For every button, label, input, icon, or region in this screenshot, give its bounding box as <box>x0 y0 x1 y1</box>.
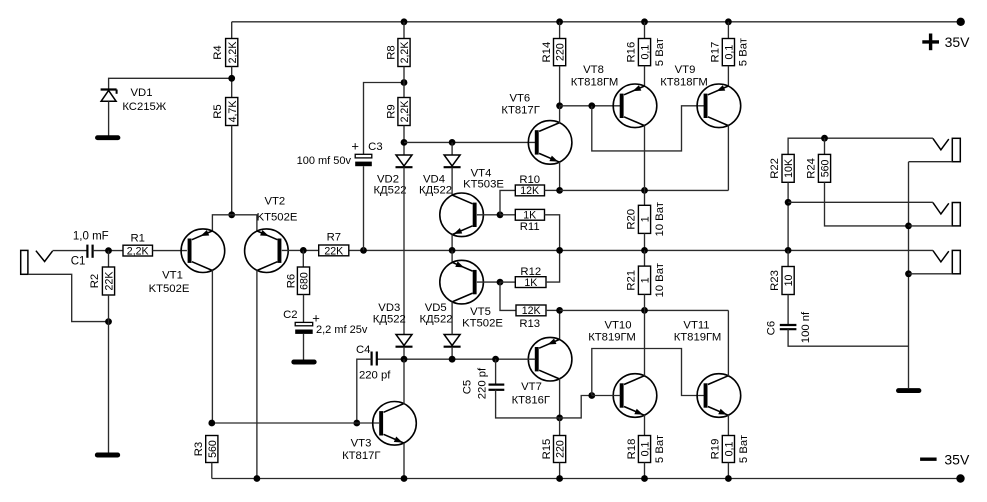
wire R4 top lead <box>231 22 233 39</box>
label R13 value 12K <box>522 305 541 317</box>
label C1 value 1,0 mF <box>73 231 109 243</box>
wire jack sleeve bus <box>908 162 910 388</box>
label R11 <box>520 221 540 233</box>
label R18 <box>626 439 638 460</box>
label R20 <box>626 209 638 230</box>
label R10 value 12K <box>520 185 539 197</box>
connector X4 output jack 3 <box>909 250 961 273</box>
svg-text:КТ818ГМ: КТ818ГМ <box>660 77 708 89</box>
svg-text:VD3: VD3 <box>378 302 400 314</box>
node G VT7 collector/R15/C5 <box>556 415 563 422</box>
wire VD4 to VT4 collector <box>451 167 453 195</box>
label R1 <box>130 233 144 245</box>
resistor R1 <box>123 245 153 256</box>
wire VD4 top lead <box>451 142 453 155</box>
label R19 <box>710 439 722 460</box>
wire +35V top power rail <box>232 21 961 23</box>
label R9 <box>385 104 397 118</box>
node R2-sleeve junction <box>105 318 112 325</box>
wire R8 to R9 <box>403 67 405 98</box>
label C6 value 100 nf <box>800 311 812 343</box>
label R2 <box>89 274 101 288</box>
node VT10 base junction <box>588 392 595 399</box>
svg-text:C1: C1 <box>71 256 86 268</box>
label R4 value 2,2K <box>227 42 239 64</box>
node R8 at +rail <box>401 18 408 25</box>
svg-text:R1: R1 <box>130 233 144 245</box>
resistor R12 <box>515 277 546 288</box>
transistor VT2 <box>245 229 289 273</box>
label VD1 <box>131 87 153 99</box>
node B VT2 base/R6/R7 junction <box>300 247 307 254</box>
wire R10 left elbow <box>500 190 515 214</box>
label R4 <box>212 45 224 59</box>
node VT2 collector at rail <box>254 475 261 482</box>
label VT2 value KT502E <box>257 211 298 223</box>
label R21 value 1 <box>640 277 652 283</box>
wire R24 top lead <box>824 138 826 154</box>
label VD3 value КД522 <box>373 314 406 326</box>
resistor R22 <box>782 154 794 182</box>
svg-text:KT502E: KT502E <box>462 318 503 330</box>
label R18 value 0,1 <box>640 442 652 457</box>
label VT11 <box>683 320 709 332</box>
wire VT3 collector riser <box>403 359 405 404</box>
svg-text:220 pf: 220 pf <box>359 369 391 381</box>
label VD2 <box>377 174 399 186</box>
svg-text:КТ818ГМ: КТ818ГМ <box>571 77 619 89</box>
label C2 value 2,2 mf 25v <box>316 324 368 336</box>
label VT3 value КТ817Г <box>342 450 380 462</box>
node R4/R5/VD1 junction <box>228 75 235 82</box>
label VD5 value КД522 <box>419 314 452 326</box>
svg-text:VT5: VT5 <box>470 306 491 318</box>
svg-text:220 pf: 220 pf <box>476 367 488 399</box>
svg-text:R16: R16 <box>626 42 638 63</box>
resistor R11 <box>515 209 544 220</box>
capacitor C2 electrolytic <box>295 322 313 334</box>
svg-text:10: 10 <box>783 275 795 287</box>
label VT3 <box>351 438 372 450</box>
svg-text:VT2: VT2 <box>264 195 285 207</box>
svg-text:R3: R3 <box>193 442 205 456</box>
node VT4 base junction <box>497 211 504 218</box>
wire R17 to VT9 emitter <box>727 66 729 87</box>
label VT2 <box>264 195 285 207</box>
label R12 value 1K <box>524 277 537 289</box>
resistor R19 <box>722 436 734 463</box>
svg-text:10 Ват: 10 Ват <box>654 202 666 236</box>
svg-text:KT502E: KT502E <box>257 211 298 223</box>
wire VT1 emitter riser <box>212 215 231 231</box>
node R19 at rail <box>725 475 732 482</box>
label VD4 value КД522 <box>419 185 452 197</box>
label VT5 value KT502E <box>462 318 503 330</box>
wire C1 to node A <box>93 250 123 252</box>
label VT6 <box>509 93 530 105</box>
wire R6 top lead <box>302 250 304 267</box>
node R3 top/VT1 collector junction <box>208 420 215 427</box>
wire R1 to VT1 base <box>153 250 187 252</box>
svg-text:10 Ват: 10 Ват <box>654 263 666 297</box>
label R14 value 220 <box>555 43 567 61</box>
label VT9 <box>675 64 696 76</box>
label R1 value 2,2K <box>127 246 149 258</box>
wire R23 top lead <box>787 250 789 266</box>
ground C2 ground <box>294 360 314 365</box>
label R21 power 10 Ват <box>654 263 666 297</box>
label VT8 value КТ818ГМ <box>571 77 619 89</box>
svg-text:35V: 35V <box>944 451 970 467</box>
wire C5 bottom elbow <box>496 390 560 418</box>
svg-text:10K: 10K <box>783 159 795 178</box>
svg-text:1: 1 <box>640 277 652 283</box>
node E VT7 emitter/R13 junction <box>556 307 563 314</box>
node A C1/R1/R2 junction <box>105 247 112 254</box>
label VT1 value KT502E <box>149 283 190 295</box>
ground output ground <box>899 388 919 393</box>
svg-text:C5: C5 <box>461 380 473 394</box>
capacitor C1 <box>87 245 92 258</box>
label VT7 <box>521 381 542 393</box>
wire R16 to VT8 emitter <box>644 66 646 87</box>
node R22/jack2 junction <box>785 199 792 206</box>
wire feedback top line <box>788 138 933 154</box>
wire VT4 base lead <box>477 214 500 216</box>
wire VT8 base line <box>560 105 621 107</box>
resistor R10 <box>515 185 544 196</box>
svg-text:КД522: КД522 <box>419 314 452 326</box>
transistor VT9 <box>697 84 741 128</box>
svg-text:R21: R21 <box>626 270 638 291</box>
wire R4 to R5 <box>231 67 233 98</box>
wire VT5 collector to VD5 <box>451 302 453 335</box>
wire VT4 emitter to main line <box>451 234 453 250</box>
connector X3 output jack 2 <box>909 203 961 226</box>
svg-text:22K: 22K <box>104 272 116 291</box>
wire R21 bottom lead <box>644 294 646 310</box>
node D VT6 emitter/R10/R20 line <box>556 187 563 194</box>
node main line R20/R21 junction <box>641 247 648 254</box>
resistor R23 <box>782 267 794 295</box>
svg-text:1: 1 <box>640 216 652 222</box>
wire R5 to VT1/VT2 emitters <box>231 126 233 215</box>
svg-text:2,2K: 2,2K <box>127 246 149 258</box>
svg-text:КС215Ж: КС215Ж <box>122 101 166 113</box>
svg-text:0,1: 0,1 <box>640 45 652 60</box>
label C3 plus <box>351 139 359 154</box>
label R2 value 22K <box>104 272 116 291</box>
resistor R20 <box>638 205 650 233</box>
label C4 <box>356 344 370 356</box>
wire R6 to C2 <box>303 295 305 323</box>
svg-text:680: 680 <box>299 272 311 290</box>
label C1 <box>71 256 86 268</box>
svg-text:КД522: КД522 <box>373 314 406 326</box>
node -35V terminal dot <box>956 474 964 482</box>
svg-text:2,2K: 2,2K <box>227 42 239 64</box>
wire R17 top lead <box>727 22 729 39</box>
wire VD2 to VD3 <box>403 167 405 334</box>
svg-text:VT1: VT1 <box>162 270 183 282</box>
label R8 <box>385 45 397 59</box>
wire R14 to node F <box>559 66 561 106</box>
svg-text:VT3: VT3 <box>351 438 372 450</box>
node R16 at +rail <box>641 18 648 25</box>
wire VD5 to node C2 <box>451 347 453 359</box>
transistor VT6 <box>528 121 572 165</box>
label VT4 value KT503E <box>463 179 504 191</box>
wire VT8 collector riser <box>644 125 646 190</box>
label R3 value 560 <box>207 440 219 458</box>
wire C3 top lead <box>364 83 405 155</box>
label R7 value 22K <box>324 245 343 257</box>
transistor VT1 <box>181 229 225 273</box>
wire R3 bottom lead <box>211 463 213 479</box>
svg-text:0,1: 0,1 <box>723 442 735 457</box>
label C4 value 220 pf <box>359 369 391 381</box>
diode VD4 <box>444 155 461 167</box>
resistor R9 <box>398 98 410 126</box>
wire R15 top lead <box>559 418 561 436</box>
wire R16 top lead <box>644 22 646 39</box>
wire VT1 collector riser <box>211 270 213 423</box>
transistor VT3 <box>373 402 417 446</box>
wire lower rail line y310 <box>560 309 729 311</box>
transistor VT4 <box>440 193 484 237</box>
wire R12 right elbow <box>546 250 560 282</box>
svg-text:C3: C3 <box>368 141 382 153</box>
svg-text:KT502E: KT502E <box>149 283 190 295</box>
diode VD3 <box>396 335 413 347</box>
wire input jack sleeve to R2 bottom <box>28 274 109 321</box>
svg-text:R15: R15 <box>541 439 553 460</box>
label VT8 <box>583 64 604 76</box>
label R24 <box>806 158 818 179</box>
ground input ground <box>97 453 117 458</box>
svg-text:0,1: 0,1 <box>723 45 735 60</box>
node sleeve bus jack2 <box>905 223 912 230</box>
svg-text:КТ817Г: КТ817Г <box>501 105 539 117</box>
node R8/R9/C3 junction <box>401 79 408 86</box>
wire VT6 base line <box>404 141 535 143</box>
svg-text:0,1: 0,1 <box>640 442 652 457</box>
label C3 <box>368 141 382 153</box>
wire VT6 collector riser <box>559 106 561 123</box>
svg-text:100 nf: 100 nf <box>800 311 812 343</box>
wire VT10 collector riser <box>644 310 646 376</box>
label R11 value 1K <box>523 210 536 222</box>
zener diode VD1 <box>101 90 117 102</box>
connector X1 input jack <box>21 250 53 274</box>
wire R21 top lead <box>644 250 646 266</box>
wire VT9 base Z-path <box>592 106 704 151</box>
capacitor C6 <box>780 325 797 329</box>
wire VT2 emitter riser <box>232 215 257 231</box>
wire VT3 emitter riser <box>403 443 405 479</box>
svg-text:2,2 mf 25v: 2,2 mf 25v <box>316 324 368 336</box>
svg-text:R8: R8 <box>385 45 397 59</box>
wire C2 to ground <box>303 334 305 360</box>
node R14 at +rail <box>556 18 563 25</box>
node R18 at rail <box>641 475 648 482</box>
wire main output line <box>303 249 933 251</box>
svg-text:2,2K: 2,2K <box>399 42 411 64</box>
wire R20 bottom lead <box>644 233 646 250</box>
node +35V terminal dot <box>957 18 965 26</box>
transistor VT5 <box>440 260 484 304</box>
wire R2 bottom to ground <box>108 295 110 455</box>
node VT5 base junction <box>497 279 504 286</box>
svg-text:35V: 35V <box>945 34 971 50</box>
node VT4/VT5 emitters on main line <box>449 247 456 254</box>
resistor R2 <box>102 267 114 295</box>
wire R8 top lead <box>403 22 405 39</box>
svg-text:КТ819ГМ: КТ819ГМ <box>588 332 636 344</box>
label R23 value 10 <box>783 275 795 287</box>
label R18 power 5 Ват <box>654 435 666 463</box>
resistor R16 <box>638 39 650 66</box>
label R15 value 220 <box>555 440 567 458</box>
wire VT9 collector riser <box>727 125 729 190</box>
svg-text:5 Ват: 5 Ват <box>654 38 666 66</box>
label C2 plus <box>312 311 320 326</box>
svg-text:5 Ват: 5 Ват <box>738 435 750 463</box>
label R13 <box>519 318 540 330</box>
wire VT5 emitter lead <box>451 250 453 262</box>
svg-text:КД522: КД522 <box>419 185 452 197</box>
svg-text:5 Ват: 5 Ват <box>654 435 666 463</box>
label R10 <box>519 174 540 186</box>
svg-text:R4: R4 <box>212 45 224 59</box>
svg-text:VT10: VT10 <box>604 320 631 332</box>
wire VT10 emitter riser <box>644 415 646 436</box>
resistor R4 <box>226 39 238 67</box>
wire R13 to node E <box>546 309 560 311</box>
svg-text:VT9: VT9 <box>675 64 696 76</box>
connector X2 output jack 1 <box>909 138 961 161</box>
power symbol +35V plus sign <box>922 34 939 51</box>
capacitor C5 <box>489 385 505 390</box>
capacitor C4 <box>372 352 377 366</box>
label R3 <box>193 442 205 456</box>
wire R9 to VD2 <box>403 126 405 156</box>
node R24 top junction <box>821 135 828 142</box>
label VT11 value КТ819ГМ <box>674 332 722 344</box>
wire VT11 base Z-path <box>592 349 704 396</box>
wire VD1 anode to ground <box>108 101 110 135</box>
label VD3 <box>378 302 400 314</box>
wire R19 bottom lead <box>727 463 729 479</box>
wire VT2 base to node B <box>282 249 304 251</box>
wire VT6 emitter riser <box>559 162 561 190</box>
label R14 <box>541 42 553 63</box>
wire VT11 emitter riser <box>727 415 729 436</box>
transistor VT8 <box>613 84 657 128</box>
wire VT7 emitter riser <box>559 310 561 339</box>
wire R10 to node D <box>545 189 560 191</box>
node R9/VD2/VT6-base junction <box>401 139 408 146</box>
label R16 value 0,1 <box>640 45 652 60</box>
node VD4 top junction <box>449 139 456 146</box>
node VT1/VT2 emitter junction <box>228 211 235 218</box>
svg-text:R5: R5 <box>212 104 224 118</box>
wire upper rail line y190 <box>560 189 729 191</box>
label R15 <box>541 439 553 460</box>
label C2 <box>283 309 297 321</box>
resistor R15 <box>554 436 566 463</box>
power symbol -35V minus sign <box>920 458 937 461</box>
label VD5 <box>425 302 447 314</box>
wire VT7 collector riser <box>559 379 561 418</box>
svg-text:+: + <box>351 139 359 154</box>
wire R15 bottom lead <box>559 463 561 479</box>
label R23 <box>769 270 781 291</box>
wire node G to VT10 base elbow <box>560 396 592 418</box>
label VT10 value КТ819ГМ <box>588 332 636 344</box>
wire C5 top lead <box>495 359 497 384</box>
wire input tip to C1 <box>53 250 88 252</box>
node VD5 bottom junction <box>449 356 456 363</box>
node VT3 emitter at rail <box>401 475 408 482</box>
svg-text:1,0 mF: 1,0 mF <box>73 231 109 243</box>
svg-text:R17: R17 <box>710 42 722 63</box>
svg-text:4,7K: 4,7K <box>227 101 239 123</box>
resistor R18 <box>638 436 650 463</box>
label R17 <box>710 42 722 63</box>
resistor R8 <box>398 39 410 67</box>
svg-text:R6: R6 <box>285 274 297 288</box>
label R17 value 0,1 <box>723 45 735 60</box>
svg-text:1K: 1K <box>523 210 536 222</box>
svg-text:VT6: VT6 <box>509 93 530 105</box>
svg-text:12K: 12K <box>522 305 541 317</box>
label C5 <box>461 380 473 394</box>
resistor R7 <box>319 245 349 256</box>
svg-text:C6: C6 <box>766 321 778 335</box>
svg-text:12K: 12K <box>520 185 539 197</box>
wire VT2 collector riser <box>256 270 258 478</box>
node R15 at rail <box>556 475 563 482</box>
label R16 <box>626 42 638 63</box>
node sleeve bus jack3 <box>905 270 912 277</box>
node main line R11/R12 junction <box>556 247 563 254</box>
wire VT7 base line <box>496 358 536 360</box>
label VT5 <box>470 306 491 318</box>
capacitor C3 electrolytic <box>355 154 372 166</box>
label R8 value 2,2K <box>399 42 411 64</box>
label R16 power 5 Ват <box>654 38 666 66</box>
wire R13 left elbow <box>500 282 516 310</box>
node C5 top junction <box>492 356 499 363</box>
svg-text:220: 220 <box>555 43 567 61</box>
svg-text:КД522: КД522 <box>373 185 406 197</box>
label VT10 <box>604 320 631 332</box>
svg-text:КТ817Г: КТ817Г <box>342 450 380 462</box>
wire -35V bottom power rail <box>212 478 961 480</box>
resistor R17 <box>722 39 734 66</box>
wire VD1 to R4/R5 node <box>109 78 232 89</box>
wire R11 right elbow <box>545 215 560 251</box>
svg-text:VT8: VT8 <box>583 64 604 76</box>
transistor VT11 <box>697 374 741 418</box>
wire R12 left lead <box>500 281 515 283</box>
wire C3 bottom lead <box>363 166 365 250</box>
svg-text:22K: 22K <box>324 245 343 257</box>
label C5 value 220 pf <box>476 367 488 399</box>
wire R2 top lead <box>108 251 110 267</box>
label R5 <box>212 104 224 118</box>
